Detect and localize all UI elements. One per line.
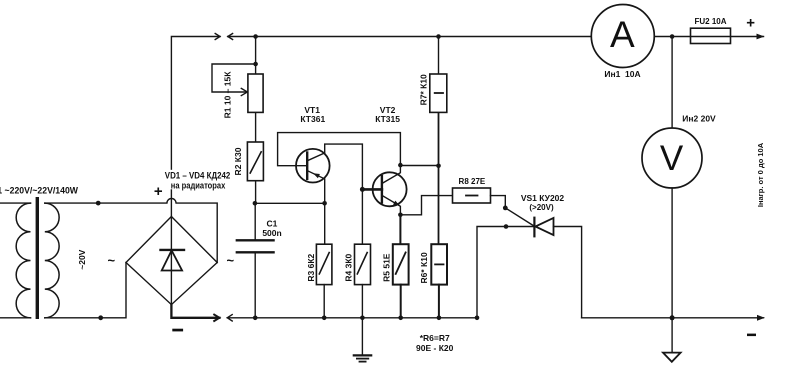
transistor VT1 base bar <box>306 153 308 179</box>
wire: R4 bottom <box>361 285 363 318</box>
chassis ground triangle <box>663 353 681 362</box>
wire: VT2 emitter node step to R8 <box>400 196 452 215</box>
ammeter In1 circle <box>591 5 654 68</box>
node: R5 bottom junction <box>398 316 403 321</box>
node: secondary bottom lead dot <box>98 315 103 320</box>
R1 wiper arrowhead <box>241 88 247 95</box>
bridge inner diode triangle <box>162 250 182 270</box>
svg-text:FU2 10А: FU2 10А <box>694 17 726 26</box>
wire: R1 rheostat wiper loop <box>212 64 256 92</box>
node: dot on thyristor cathode wire <box>504 224 509 229</box>
svg-text:~20V: ~20V <box>77 249 87 269</box>
svg-text:V: V <box>660 139 684 178</box>
wire: R1 column from top bus <box>255 37 257 75</box>
node: VT2 collector junction <box>398 163 403 168</box>
svg-text:Ин1 10А: Ин1 10А <box>604 69 640 79</box>
VT2 emitter arrow (NPN, points out) <box>393 201 400 206</box>
resistor R6 body <box>431 244 447 284</box>
wire: VT2 emitter down to node <box>382 195 401 215</box>
wire: VT2 collector up and over to R7 column <box>382 165 439 183</box>
transistor VT2 circle <box>373 172 407 206</box>
wire: VT2 base stub <box>362 188 382 191</box>
svg-text:VD1 – VD4 КД242: VD1 – VD4 КД242 <box>165 171 231 181</box>
wire: primary bottom lead <box>0 317 31 319</box>
resistor R4 body <box>355 244 371 284</box>
wire: VT1 base loop over the top <box>278 133 401 166</box>
wire: R7 bottom down to R6 <box>438 112 440 244</box>
transistor VT1 circle <box>296 149 330 183</box>
svg-text:Т1 ~220V/~22V/140W: Т1 ~220V/~22V/140W <box>0 185 78 195</box>
bridge center vertical <box>170 217 172 305</box>
resistor R2 body <box>247 142 263 181</box>
wire: secondary top lead with hop over + riser, to bridge right vertex <box>45 198 217 262</box>
node: VT2 emitter node <box>398 213 403 218</box>
node: top bus / R7 column junction <box>436 34 441 39</box>
node: VT1 emitter/R3 junction <box>322 201 327 206</box>
svg-text:+: + <box>154 183 163 200</box>
svg-text:R3 6К2: R3 6К2 <box>306 253 316 281</box>
node: top bus / voltmeter junction <box>670 34 675 39</box>
node: ground bus end junction <box>475 316 480 321</box>
R5 power slash <box>396 253 406 274</box>
R3 power slash <box>319 253 329 274</box>
svg-text:Ин2 20V: Ин2 20V <box>682 114 716 124</box>
output arrow right (minus) <box>757 315 764 320</box>
wire: cathode riser from ground bus to thyristor <box>477 227 533 318</box>
bridge inner diode cathode bar <box>161 249 185 251</box>
svg-text:Iнагр. от 0 до 10А: Iнагр. от 0 до 10А <box>756 142 765 207</box>
svg-text:КТ361: КТ361 <box>300 114 325 124</box>
svg-text:(>20V): (>20V) <box>529 203 554 212</box>
svg-text:R4 3К0: R4 3К0 <box>344 253 354 281</box>
wire: R6 bottom <box>438 285 440 318</box>
ground symbol (3 bars) <box>354 354 371 356</box>
wire: top bus to ammeter <box>228 36 592 38</box>
node: VT2 base junction <box>360 187 365 192</box>
node: C1 bottom junction <box>253 316 258 321</box>
svg-text:500n: 500n <box>262 228 281 238</box>
node: R1 wiper tap <box>253 62 258 67</box>
wire: R1 to R2 <box>255 112 257 142</box>
bridge rectifier VD1-VD4 diamond <box>126 217 217 305</box>
thyristor VS1 cathode bar <box>533 218 535 237</box>
wire: VT2 base column down to R4 <box>361 189 363 244</box>
svg-text:C1: C1 <box>266 218 277 228</box>
svg-text:КТ315: КТ315 <box>375 114 400 124</box>
capacitor C1 bottom lead <box>254 253 256 318</box>
resistor R1 body <box>248 74 263 112</box>
node: R4/ground junction <box>360 316 365 321</box>
wire: thyristor anode down to minus bus <box>554 227 582 318</box>
capacitor C1 plates <box>237 240 274 252</box>
wire: R5 bottom <box>400 285 402 318</box>
svg-text:*R6=R7: *R6=R7 <box>420 333 450 343</box>
wire: ground stub under R4 <box>361 318 363 355</box>
node: secondary top lead dot <box>96 201 101 206</box>
svg-text:R6* К10: R6* К10 <box>419 252 429 283</box>
node: top bus / R1 column junction <box>253 34 258 39</box>
svg-text:R1 10 – 15К: R1 10 – 15К <box>222 71 232 119</box>
svg-text:R5 51Е: R5 51Е <box>382 253 392 282</box>
wire: secondary bottom lead to bridge left vertex drop <box>45 263 126 318</box>
wire: R3 bottom <box>323 285 325 318</box>
connector arrow right at top left <box>215 34 220 40</box>
node: R7 column mid junction <box>436 164 441 169</box>
node: gate corner dot <box>503 206 508 211</box>
wire: VT1 emitter down to R3 <box>307 171 325 245</box>
output arrow right (plus) <box>757 34 764 39</box>
wire: R8 right to thyristor gate <box>491 196 535 226</box>
fuse FU2 body <box>691 28 731 43</box>
wire: VT1 collector to VT2 base <box>307 144 362 189</box>
wire: bridge + riser up to top bus <box>171 37 220 217</box>
svg-text:+: + <box>746 15 755 32</box>
wire: bottom ground bus <box>227 317 477 319</box>
white backing for VD1 label over wire <box>163 170 232 190</box>
svg-text:R8 27Е: R8 27Е <box>459 177 486 186</box>
node: voltmeter/ground junction <box>670 315 675 320</box>
wire: ammeter to fuse and + output <box>654 36 763 38</box>
wire: voltmeter bottom down to minus bus <box>671 188 673 318</box>
wire: ground stub right <box>671 318 673 353</box>
node: R3 bottom junction <box>322 316 327 321</box>
transformer T1 core <box>36 197 39 319</box>
R4 power slash <box>357 253 367 274</box>
resistor R3 body <box>316 244 332 284</box>
capacitor C1 top lead <box>254 203 256 239</box>
wire: bottom minus bus to output arrow <box>582 317 764 319</box>
svg-text:A: A <box>610 14 635 55</box>
resistor R5 body <box>393 244 409 284</box>
svg-text:~: ~ <box>227 253 235 268</box>
VT1 emitter arrow (PNP, points to base) <box>313 173 320 178</box>
label - at bridge output <box>172 329 183 332</box>
connector arrow left at bottom <box>227 315 232 321</box>
R2 power slash <box>250 152 261 173</box>
resistor R7 body <box>430 74 447 112</box>
wire: R5 column <box>399 215 401 244</box>
label - output <box>747 334 756 337</box>
thyristor VS1 triangle <box>535 218 553 235</box>
connector arrow left at top <box>228 34 233 40</box>
transistor VT2 base bar <box>381 176 383 203</box>
svg-text:90Е - К20: 90Е - К20 <box>416 343 454 353</box>
wire: node to VT1 emitter column <box>255 202 325 204</box>
svg-text:R7* К10: R7* К10 <box>419 74 429 105</box>
R7 power dash <box>435 92 443 94</box>
R8 power dash <box>466 195 478 197</box>
node: R6 bottom junction <box>437 316 442 321</box>
wire: R2 to node <box>255 181 257 204</box>
transformer T1 primary winding <box>16 203 30 318</box>
connector arrow right at bottom left <box>214 315 219 321</box>
wire: voltmeter riser <box>671 37 673 129</box>
R6 power dash <box>435 263 443 265</box>
svg-text:на радиаторах: на радиаторах <box>171 181 226 191</box>
wire: primary top lead <box>0 202 31 204</box>
svg-text:R2 К30: R2 К30 <box>233 147 243 175</box>
transformer T1 secondary winding <box>45 203 59 318</box>
svg-text:~: ~ <box>108 253 116 268</box>
voltmeter In2 circle <box>642 128 702 188</box>
wire: R7 column from top bus <box>438 37 440 75</box>
svg-text:VS1 КУ202: VS1 КУ202 <box>521 193 565 203</box>
node: R2/C1 junction <box>253 201 258 206</box>
wire: bridge - output to arrow <box>171 305 219 318</box>
resistor R8 body <box>453 188 491 203</box>
